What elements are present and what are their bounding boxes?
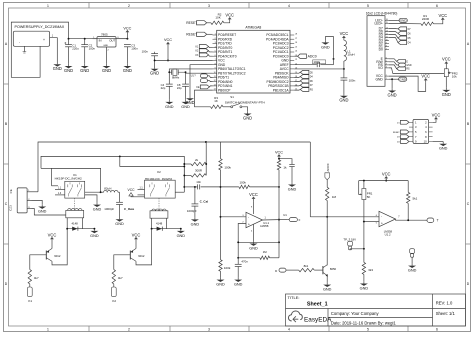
wire ctl flag wire <box>389 59 397 62</box>
svg-text:POWERSUPPLY_DC219MAX: POWERSUPPLY_DC219MAX <box>15 25 65 29</box>
svg-text:1k: 1k <box>283 166 287 170</box>
net flag flag ain <box>200 74 209 78</box>
svg-text:RESET: RESET <box>186 33 197 37</box>
svg-text:10n: 10n <box>196 180 201 184</box>
svg-text:10: 10 <box>386 39 388 41</box>
wire 1k body <box>277 160 280 170</box>
power VCC op1 pin <box>249 192 258 201</box>
wire tp column <box>363 222 365 249</box>
ground GND k1pin <box>93 202 102 211</box>
capacitor C4 <box>166 84 173 86</box>
svg-text:GND: GND <box>400 19 408 23</box>
junction <box>205 141 207 143</box>
wire cap stub up <box>154 52 156 54</box>
svg-text:10: 10 <box>424 140 427 144</box>
wire op2 out wire <box>396 219 426 220</box>
wire avcc wire <box>294 68 344 70</box>
wire 7805 in stub <box>93 38 97 40</box>
wire 470n bot <box>237 267 239 278</box>
transistor Q1 9012 <box>46 249 52 262</box>
ground GND 100k <box>216 277 225 286</box>
net flag K1 <box>27 287 32 297</box>
junction <box>168 71 170 73</box>
wire flag wire P1 <box>209 47 213 48</box>
wire psu pin2 stub <box>23 46 25 51</box>
svg-text:C_Owe: C_Owe <box>124 207 135 211</box>
svg-text:5: 5 <box>367 4 369 8</box>
wire d flag wire <box>389 32 398 34</box>
wire 4k7 q2 body <box>112 270 115 284</box>
svg-text:U1 ?: U1 ? <box>191 75 197 77</box>
ground GND capf <box>288 182 297 191</box>
net flag isp flag RESET <box>400 130 409 134</box>
svg-text:VCC: VCC <box>48 232 57 237</box>
wire long wire to op2 <box>310 216 379 218</box>
capacitor cap vccf <box>289 164 294 166</box>
capacitor C3 <box>124 45 131 47</box>
svg-text:GND: GND <box>439 147 448 151</box>
wire flag wire ain <box>210 76 213 78</box>
ground GND ce2 <box>38 204 47 213</box>
svg-text:GND: GND <box>216 283 225 287</box>
junction <box>167 59 169 61</box>
wire lcd gnd wire <box>389 78 397 80</box>
wire vcc wire to mcu <box>155 59 213 61</box>
junction <box>205 163 207 165</box>
wire isp vcc wire <box>433 121 436 124</box>
svg-text:8050: 8050 <box>330 267 337 271</box>
svg-text:VCC: VCC <box>128 188 136 192</box>
wire pb0 switch wire <box>195 90 213 107</box>
svg-text:GND: GND <box>103 45 108 47</box>
wire aref wire <box>294 64 317 66</box>
net flag GND flag led- <box>397 18 407 22</box>
wire 100k low body <box>219 260 222 272</box>
wire op1 pin2 wire <box>238 224 246 258</box>
svg-text:C_Cal: C_Cal <box>200 200 209 204</box>
wire d flag wire <box>389 28 398 30</box>
capacitor C_Owe <box>116 202 123 204</box>
wire op1 out <box>263 219 280 221</box>
svg-text:TP_3.18V: TP_3.18V <box>343 237 356 241</box>
svg-text:14: 14 <box>214 89 216 91</box>
wire vert 2k/300R <box>205 142 207 175</box>
wire vo wire <box>389 68 444 74</box>
wire 100kh right <box>250 186 280 188</box>
svg-text:24: 24 <box>295 51 297 53</box>
junction <box>326 216 328 218</box>
svg-text:2: 2 <box>386 75 387 77</box>
svg-text:VCC: VCC <box>249 192 258 197</box>
wire bus down right <box>309 142 311 217</box>
net flag ADC0 flag <box>298 54 307 58</box>
wire mcu gnd wire <box>190 65 213 96</box>
wire d flag wire <box>389 38 398 43</box>
wire tp wire <box>350 249 364 250</box>
wire ce pin3 wire <box>32 209 66 216</box>
wire reset wire <box>207 33 213 35</box>
wire 8050 collector bus <box>326 217 328 265</box>
capacitor C8 <box>182 84 189 86</box>
net flag d flag <box>398 31 407 35</box>
test point TP gnd <box>410 249 415 258</box>
svg-text:+: + <box>248 223 250 227</box>
wire l2 right <box>118 191 120 193</box>
junction <box>84 38 86 40</box>
title block <box>286 294 466 326</box>
wire flag wire P3 <box>209 55 213 56</box>
junction <box>278 219 280 221</box>
svg-text:GND: GND <box>80 68 89 73</box>
svg-text:9012: 9012 <box>138 254 145 258</box>
wire 4k7 q1 tail <box>29 284 31 287</box>
svg-text:8k1: 8k1 <box>304 264 309 268</box>
wire C4 gnd wire <box>168 86 170 99</box>
net flag flag P3 <box>199 53 208 57</box>
ground GND 3k3 <box>360 281 369 290</box>
ground GND PR2 <box>442 88 451 97</box>
junction <box>183 186 185 188</box>
svg-text:TITLE:: TITLE: <box>288 295 300 300</box>
svg-text:RS: RS <box>310 90 314 92</box>
wire gnd hang wire <box>325 37 333 65</box>
capacitor C2 <box>81 45 88 47</box>
wire ccal stub <box>194 187 196 204</box>
svg-text:1M: 1M <box>263 250 268 254</box>
ground GND C3 <box>123 64 132 73</box>
power VCC op1 <box>275 151 283 159</box>
wire 7805 out stub <box>116 38 127 40</box>
svg-text:7805: 7805 <box>101 32 108 36</box>
net flag pb flag <box>300 75 309 79</box>
wire R3 body <box>211 105 223 108</box>
wire ce pin1 wire <box>32 191 39 193</box>
svg-text:4: 4 <box>288 4 290 8</box>
svg-text:10K: 10K <box>215 15 220 19</box>
wire isp gnd wire <box>433 141 444 143</box>
svg-text:REV: 1.0: REV: 1.0 <box>436 300 453 305</box>
wire k1 loop jog <box>52 185 59 187</box>
wire 7805 gnd <box>106 47 108 64</box>
svg-text:GND: GND <box>243 116 252 121</box>
wire PR2 to gnd <box>445 77 447 88</box>
wire led- wire <box>389 19 397 21</box>
svg-text:GND: GND <box>375 77 383 81</box>
net flag K2 <box>111 287 116 297</box>
wire q2 collector wire <box>136 229 152 265</box>
svg-text:VO: VO <box>378 66 383 70</box>
svg-text:GND: GND <box>249 247 258 251</box>
wire xtal2 wire <box>186 73 213 84</box>
svg-text:ADC0: ADC0 <box>308 55 317 59</box>
wire cap to gnd <box>154 56 156 67</box>
wire k1 loop <box>52 168 101 192</box>
svg-text:16: 16 <box>386 19 388 21</box>
svg-text:10uH: 10uH <box>347 53 354 57</box>
svg-text:GND: GND <box>288 188 297 192</box>
net flag d flag <box>398 36 407 40</box>
wire psu pin1 down <box>50 38 58 62</box>
wire 1M v body <box>326 187 329 200</box>
wire out to flag <box>279 219 287 221</box>
wire rail2 to k1 loop <box>41 167 52 169</box>
wire k1 coil pin a <box>66 218 68 229</box>
net flag pb flag <box>300 79 309 83</box>
svg-text:220R: 220R <box>422 17 430 21</box>
svg-text:VCC: VCC <box>275 151 283 155</box>
svg-text:K2: K2 <box>112 299 116 303</box>
junction <box>119 155 121 157</box>
svg-text:Sheet: 1/1: Sheet: 1/1 <box>436 311 456 316</box>
svg-text:9012: 9012 <box>54 254 61 258</box>
wire S1 to gnd <box>242 107 248 112</box>
svg-text:14: 14 <box>386 27 388 29</box>
net flag flag P1 <box>199 45 208 49</box>
wire 5k1 bottom <box>407 203 409 220</box>
relay K1 contacts <box>68 182 72 196</box>
wire pr1 top <box>363 181 365 189</box>
svg-text:9: 9 <box>386 42 387 44</box>
wire cowe top <box>119 192 121 202</box>
junction <box>100 191 102 193</box>
wire xtal1 wire <box>169 69 212 84</box>
wire pb flag wire <box>294 80 300 83</box>
wire cap branch <box>279 159 292 165</box>
svg-text:Company: Your Company: Company: Your Company <box>331 311 380 316</box>
wire 2k body <box>191 162 206 165</box>
svg-text:1K: 1K <box>214 99 218 103</box>
svg-text:S1: S1 <box>230 95 234 99</box>
capacitor C_Cal <box>192 204 199 206</box>
svg-text:11: 11 <box>214 76 216 78</box>
ground GND ccal <box>191 217 200 226</box>
svg-text:GND: GND <box>53 66 62 71</box>
ground GND k2 diode <box>177 229 186 238</box>
svg-text:GND: GND <box>150 71 159 76</box>
net flag d flag <box>398 41 407 45</box>
wire 5k1 top <box>407 181 409 193</box>
junction <box>407 219 409 221</box>
svg-text:25: 25 <box>295 46 297 48</box>
junction <box>237 257 239 259</box>
junction <box>220 216 222 218</box>
svg-text:12: 12 <box>214 80 216 82</box>
potentiometer PR2 10k <box>444 69 448 77</box>
wire k2 pin r <box>175 191 184 193</box>
svg-text:GND: GND <box>38 210 47 214</box>
junction <box>385 180 387 182</box>
wire L1 to junction <box>343 61 345 69</box>
junction <box>154 59 156 61</box>
svg-text:GND: GND <box>93 208 102 212</box>
junction <box>194 186 196 188</box>
svg-text:6: 6 <box>386 58 387 60</box>
svg-text:IN: IN <box>99 38 102 42</box>
wire k1 coil pin b <box>82 218 84 229</box>
wire C1 bottom <box>68 47 70 64</box>
svg-text:VCC: VCC <box>421 73 430 78</box>
svg-text:GND: GND <box>123 68 132 73</box>
ground GND C4 <box>165 100 174 109</box>
svg-text:220u: 220u <box>72 46 79 50</box>
svg-text:OUT: OUT <box>109 38 115 42</box>
junction <box>151 228 153 230</box>
capacitor 10n <box>198 184 200 189</box>
net flag out flag <box>287 218 297 222</box>
svg-text:4: 4 <box>386 64 387 66</box>
wire R3 to S1 <box>223 106 231 108</box>
ground GND 7805 <box>102 64 111 73</box>
wire 100k v body <box>219 159 222 170</box>
wire k2 pin l2 <box>138 194 145 196</box>
op-amp U1.1 LM358 <box>246 212 263 227</box>
svg-text:8MHz: 8MHz <box>172 75 180 79</box>
svg-text:1000pF: 1000pF <box>104 207 114 211</box>
ground GND aref <box>321 40 330 49</box>
wire 300R body <box>191 174 206 177</box>
net flag pb flag <box>300 88 309 92</box>
svg-text:2: 2 <box>215 38 216 40</box>
wire pb flag wire <box>294 89 300 92</box>
svg-text:5K: 5K <box>367 195 371 199</box>
junction <box>126 38 128 40</box>
svg-text:1: 1 <box>47 4 49 8</box>
wire op2 pin5 wire <box>364 221 379 223</box>
svg-text:4148: 4148 <box>72 221 79 225</box>
svg-text:28: 28 <box>295 34 297 36</box>
junction <box>391 78 393 80</box>
junction <box>363 248 365 250</box>
ground GND op1 <box>249 241 258 250</box>
svg-text:13: 13 <box>214 84 216 86</box>
wire flag wire ain <box>210 81 213 82</box>
junction <box>278 158 280 160</box>
svg-text:9: 9 <box>215 68 216 70</box>
wire 3k3 top <box>363 249 365 263</box>
svg-text:GND: GND <box>339 98 348 103</box>
svg-text:5: 5 <box>367 328 369 332</box>
wire q2 base wire <box>114 255 131 270</box>
ground GND 470n <box>234 277 243 286</box>
wire 1m bottom <box>326 201 328 217</box>
svg-text:K2: K2 <box>157 170 161 174</box>
svg-text:ADC0: ADC0 <box>326 163 330 171</box>
wire k1 diode rail <box>67 228 94 230</box>
wire k2 coil pin a <box>151 218 153 229</box>
svg-text:4k7: 4k7 <box>34 276 39 280</box>
wire flag to R2 <box>207 22 211 24</box>
connector J1 ISP header <box>413 119 429 143</box>
junction <box>220 186 222 188</box>
svg-text:ATMEGA8: ATMEGA8 <box>245 26 261 30</box>
svg-text:1: 1 <box>386 78 387 80</box>
wire ce pin1 <box>27 191 31 193</box>
net flag d flag <box>398 27 407 31</box>
svg-text:11: 11 <box>386 36 388 38</box>
relay K2 coil <box>158 198 160 211</box>
wire busB <box>278 170 280 258</box>
EasyEDA logo <box>288 311 332 323</box>
svg-text:100k: 100k <box>224 266 231 270</box>
svg-text:D0: D0 <box>379 48 383 52</box>
svg-text:K1: K1 <box>28 299 32 303</box>
svg-text:VCC: VCC <box>382 171 391 176</box>
ground GND lcd <box>388 88 397 97</box>
wire pot rail <box>359 180 409 182</box>
wire 1mh right <box>270 257 279 259</box>
junction <box>93 228 95 230</box>
svg-text:5k1: 5k1 <box>413 197 418 201</box>
ground GND cowe <box>115 217 124 226</box>
power VCC mcu <box>164 38 172 60</box>
svg-text:15: 15 <box>386 22 388 24</box>
capacitor C1 <box>65 45 72 47</box>
svg-text:3k3: 3k3 <box>368 268 373 272</box>
wire 5k1 body <box>407 192 410 203</box>
net flag pb flag <box>300 83 309 87</box>
svg-text:82uH: 82uH <box>104 186 111 190</box>
wire 100k h body <box>239 185 250 188</box>
svg-text:GND: GND <box>408 269 417 273</box>
wire k2 coil pin b <box>165 218 167 229</box>
wire busA bot <box>220 271 222 277</box>
svg-text:22p: 22p <box>161 86 166 90</box>
wire 3k3 body <box>362 262 365 274</box>
wire 1mh left <box>238 257 260 259</box>
ground GND dec <box>150 67 159 76</box>
power VCC isp <box>432 112 441 121</box>
wire k2 loop <box>120 156 185 192</box>
wire C1 top <box>68 39 70 45</box>
ground GND k1 diode <box>90 229 99 238</box>
svg-text:22: 22 <box>295 59 297 61</box>
wire k1 r2 wire <box>85 195 97 203</box>
net flag T flag <box>425 218 434 222</box>
wire q1 vcc wire <box>51 242 53 249</box>
wire 8k1 body <box>299 268 315 271</box>
svg-text:7: 7 <box>386 48 387 50</box>
wire input rail <box>69 38 128 40</box>
svg-text:22p: 22p <box>177 86 182 90</box>
svg-text:GND: GND <box>165 105 174 109</box>
power VCC out <box>123 26 131 38</box>
svg-text:HK19F-DC_IN/GH2: HK19F-DC_IN/GH2 <box>55 177 82 181</box>
svg-text:RS: RS <box>406 69 410 71</box>
svg-text:2: 2 <box>128 4 130 8</box>
svg-text:100n: 100n <box>89 46 96 50</box>
svg-text:KE: KE <box>196 87 200 89</box>
power VCC q1 <box>48 232 57 241</box>
junction <box>180 228 182 230</box>
wire ce pin3 <box>27 208 31 210</box>
ground GND S1 <box>243 111 252 120</box>
junction <box>333 58 335 60</box>
svg-text:13: 13 <box>386 30 388 32</box>
svg-text:U1: U1 <box>283 213 287 217</box>
wire rail1 <box>38 142 310 192</box>
wire q1 collector wire <box>52 229 67 265</box>
wire l2 left <box>101 191 104 193</box>
wire pr1 bottom <box>363 200 365 222</box>
ground GND avcc <box>339 94 348 103</box>
power supply body box <box>13 31 49 46</box>
svg-text:10k: 10k <box>452 75 457 79</box>
svg-text:LED+: LED+ <box>374 21 382 25</box>
ground GND C1 <box>64 64 73 73</box>
transistor Q2 9012 <box>130 249 136 262</box>
wire C8 gnd wire <box>185 86 187 99</box>
capacitor 100n AREF <box>313 60 326 64</box>
